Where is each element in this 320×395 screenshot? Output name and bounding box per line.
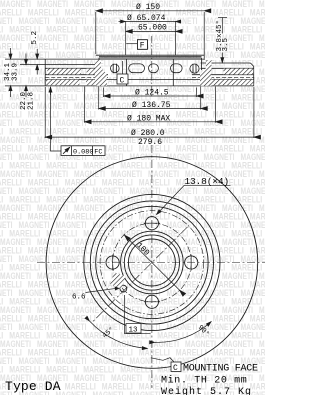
svg-text:Ø 65.074: Ø 65.074 — [127, 14, 166, 23]
svg-text:Min. TH 20 mm: Min. TH 20 mm — [161, 375, 247, 387]
svg-text:5.2: 5.2 — [31, 31, 39, 45]
svg-text:21.8: 21.8 — [28, 92, 36, 110]
svg-text:Ø 180 MAX: Ø 180 MAX — [127, 114, 170, 123]
svg-text:C: C — [120, 77, 125, 86]
svg-text:3.5: 3.5 — [222, 37, 230, 51]
svg-text:Type DA: Type DA — [5, 379, 61, 394]
svg-text:13.8(×4): 13.8(×4) — [185, 176, 230, 187]
svg-text:C: C — [173, 364, 178, 373]
svg-text:6.6: 6.6 — [72, 294, 86, 302]
svg-text:Ø 280.0: Ø 280.0 — [131, 129, 165, 138]
svg-text:Ø 150: Ø 150 — [136, 3, 160, 12]
svg-text:13: 13 — [129, 327, 139, 335]
svg-text:MOUNTING FACE: MOUNTING FACE — [183, 364, 258, 375]
svg-text:0.080: 0.080 — [73, 149, 93, 157]
svg-text:65.000: 65.000 — [138, 24, 167, 33]
svg-text:FC: FC — [94, 149, 102, 157]
svg-text:Weight 5.7 Kg: Weight 5.7 Kg — [161, 386, 252, 395]
svg-text:33.9: 33.9 — [12, 63, 20, 81]
svg-text:Ø 124.5: Ø 124.5 — [135, 89, 169, 98]
svg-text:Ø 136.75: Ø 136.75 — [132, 101, 171, 110]
svg-text:279.6: 279.6 — [138, 138, 162, 147]
